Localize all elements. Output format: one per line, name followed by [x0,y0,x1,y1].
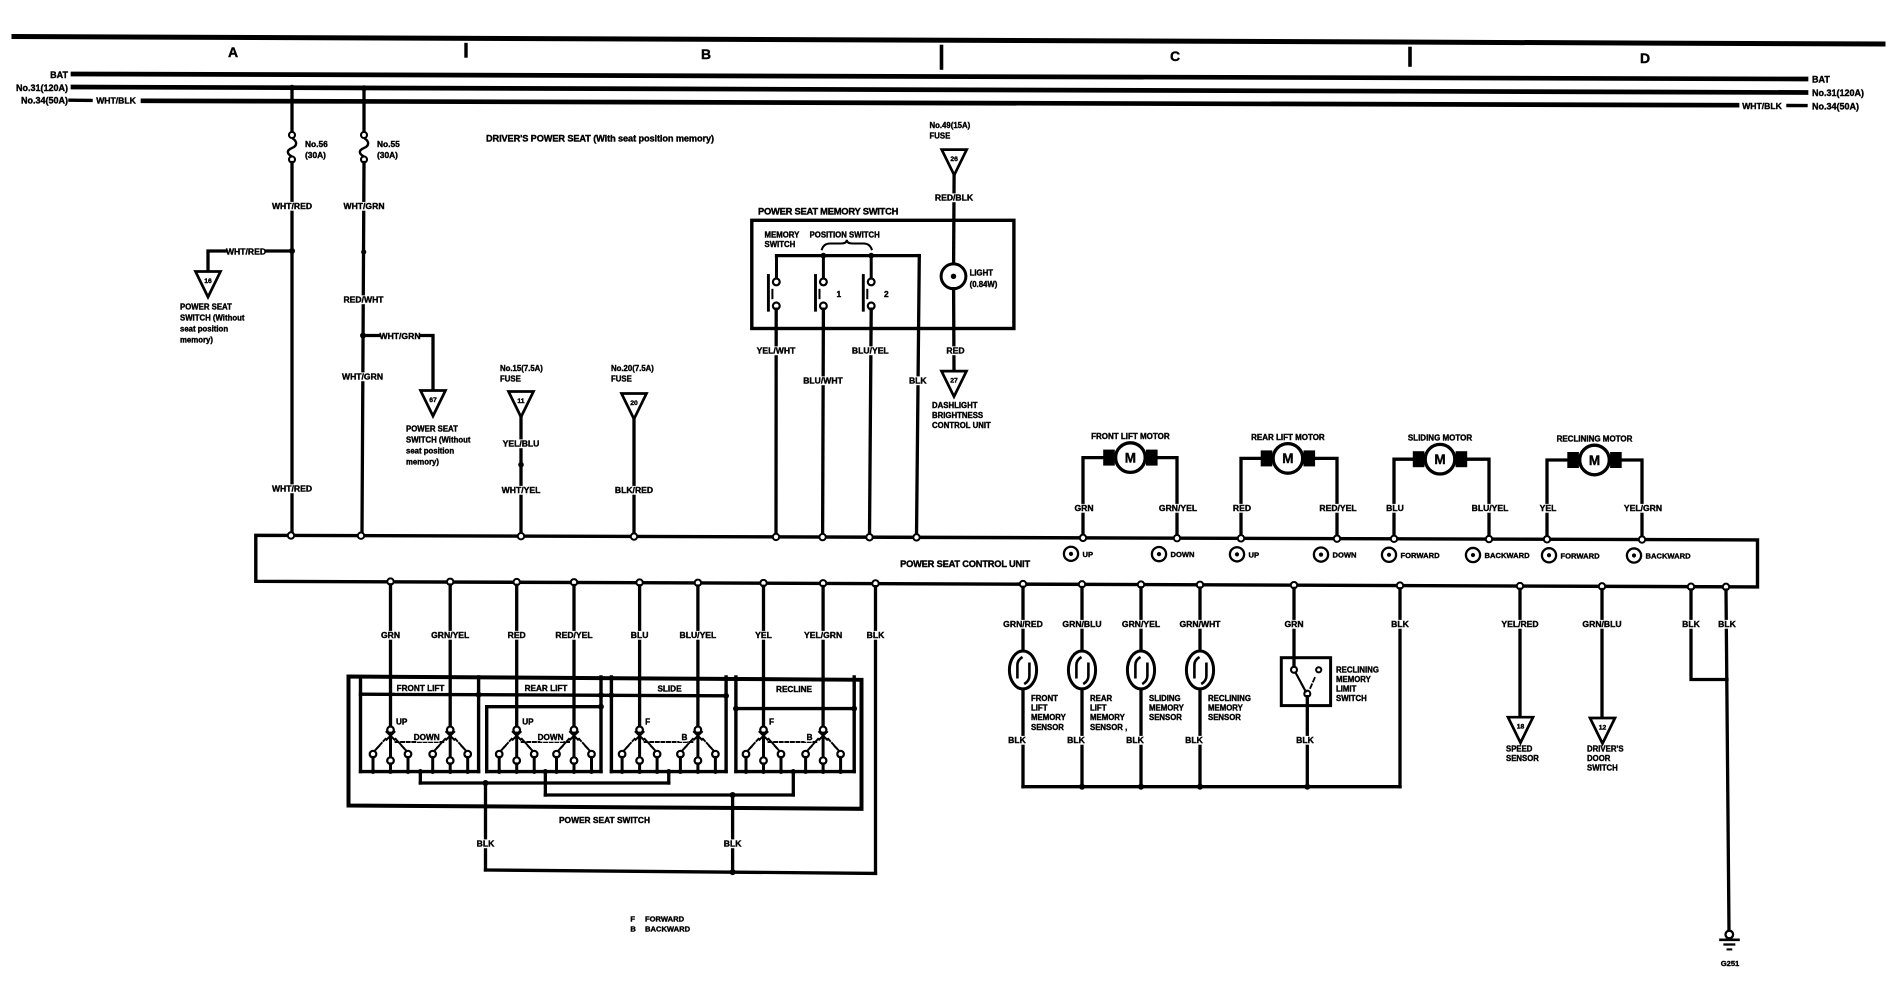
connector triangle 20 [622,394,647,420]
label BLU [1386,503,1405,513]
zone label D [1640,50,1650,66]
wire BLK control unit to sensor ground bus [1398,589,1401,787]
svg-text:FORWARD: FORWARD [645,915,685,924]
label BLK memory switch [908,376,927,386]
svg-text:YEL: YEL [755,630,772,640]
memory sensor REAR [1068,651,1095,689]
wire GRN control unit to seat switch pole [389,585,392,727]
svg-text:No.31(120A): No.31(120A) [1812,88,1864,98]
motor M3 sliding [1413,444,1467,474]
svg-text:DOWN: DOWN [414,733,440,742]
svg-text:POWER SEAT CONTROL UNIT: POWER SEAT CONTROL UNIT [900,559,1030,569]
connector triangle 16 [196,272,221,298]
svg-text:RED/BLK: RED/BLK [935,193,974,203]
label WHT/RED lower [272,484,312,494]
svg-text:(0.84W): (0.84W) [970,280,998,289]
wire link line B [545,793,793,796]
direction symbol UP at x=1071 [1064,547,1093,561]
wire BLK SLIDING sensor to ground bus [1139,689,1142,787]
svg-text:BLU/YEL: BLU/YEL [1472,503,1509,513]
label GRN/WHT [1179,619,1221,629]
mechanical link UP-DOWN [396,741,446,743]
wire bus to position switch 1 [822,257,825,278]
label DOWN [538,733,564,742]
svg-text:LIFT: LIFT [1090,704,1107,713]
wire RED/YEL M2 rear lift right lead [1315,458,1337,535]
node bus dot switch 3 [868,253,874,259]
svg-text:WHT/YEL: WHT/YEL [502,485,541,495]
wire BLK limit switch to ground bus [1304,697,1310,790]
label B [805,733,813,742]
svg-text:BLK: BLK [867,630,885,640]
label GRN [1074,503,1093,513]
svg-text:SLIDE: SLIDE [657,685,682,694]
svg-text:GRN: GRN [1074,503,1093,513]
svg-text:YEL: YEL [1540,503,1557,513]
label No.55 (30A) [377,139,400,160]
label No.34(50A) left [21,96,68,106]
label BLK sensor SLIDING [1126,735,1145,745]
slide switch frame [609,677,729,772]
wire BLU/YEL position switch 2 to control unit [870,309,872,536]
wire BLU/WHT position switch 1 to control unit [821,309,825,536]
svg-text:FRONT LIFT MOTOR: FRONT LIFT MOTOR [1091,432,1170,441]
switch pole at x=823.1 [802,727,844,774]
direction symbol UP at x=1237 [1230,547,1259,561]
wire BLU/YEL M3 sliding right lead [1467,459,1489,536]
svg-text:SWITCH (Without: SWITCH (Without [180,314,245,323]
label GRN/YEL [1122,619,1160,629]
reclining memory limit switch box [1281,658,1330,706]
label No.31(120A) right [1812,88,1864,98]
wire BLK FRONT sensor to ground bus [1021,689,1024,787]
node junction WHT/RED branch [289,248,295,254]
label BLU/YEL [851,346,889,356]
label BLK switch 1 [476,839,495,849]
ground G251 symbol [1721,931,1739,950]
switch pole at x=390.5 [370,727,412,774]
svg-text:LIMIT: LIMIT [1336,685,1357,694]
wire GRN/BLU control unit to door switch [1600,590,1603,718]
label POWER SEAT CONTROL UNIT [900,559,1030,569]
svg-text:BACKWARD: BACKWARD [1646,552,1692,561]
svg-text:GRN/YEL: GRN/YEL [431,630,469,640]
svg-text:M: M [1434,452,1445,467]
node splice on wire 2 [361,249,366,254]
wire BLU M3 sliding left lead [1394,459,1413,535]
svg-text:UP: UP [522,718,534,727]
label POSITION SWITCH [810,231,881,240]
position switch 2 contact set [863,276,874,311]
label DRIVER'S DOOR SWITCH [1587,745,1624,773]
label REAR LIFT [523,684,569,693]
brace over position switches [822,240,872,250]
svg-text:WHT/GRN: WHT/GRN [343,201,384,211]
label WHT/GRN lower [342,372,383,382]
svg-text:BLK: BLK [1391,619,1409,629]
label MEMORY SWITCH [765,231,801,250]
svg-text:No.56: No.56 [305,139,328,149]
wire sensor ground bus [1023,784,1400,790]
svg-text:YEL/GRN: YEL/GRN [1624,503,1662,513]
svg-text:M: M [1282,451,1293,466]
svg-text:BACKWARD: BACKWARD [1485,551,1531,560]
direction symbol DOWN at x=1321 [1314,547,1357,561]
svg-text:MEMORY: MEMORY [1336,675,1372,684]
svg-text:DASHLIGHT: DASHLIGHT [932,401,978,410]
memory switch contact set [768,276,779,311]
wire front lift common drop [418,769,423,783]
wire WHT/RED branch to connector 16 [208,251,292,272]
svg-text:DRIVER'S: DRIVER'S [1587,745,1624,754]
svg-text:SLIDING: SLIDING [1149,694,1181,703]
label RED [946,346,965,356]
label WHT/GRN upper [343,201,384,211]
power seat switch outer box [349,677,862,809]
label RED/YEL [1319,503,1357,513]
svg-text:B: B [630,925,636,934]
label SLIDING MEMORY SENSOR [1149,694,1185,722]
connector triangle 26 [942,150,967,176]
wire WHT/GRN / RED/WHT fuse No.55 to control unit [362,163,364,534]
connector triangle 18 speed sensor [1508,717,1533,743]
svg-text:WHT/BLK: WHT/BLK [96,96,136,106]
node junction WHT/GRN branch [360,333,366,339]
svg-text:BLU/WHT: BLU/WHT [803,376,843,386]
label YEL/BLU [502,439,540,449]
label B [679,733,687,742]
label BLK sensor RECLINING [1185,735,1204,745]
bus No.34(50A) WHT/BLK wire [70,96,1806,111]
svg-text:UP: UP [396,718,408,727]
svg-text:seat position: seat position [180,325,228,334]
control unit bottom terminals [387,578,1729,590]
label G251 [1721,959,1740,968]
wire YEL/GRN M4 reclining right lead [1622,460,1642,536]
node splice YEL/BLU to WHT/YEL [518,462,524,468]
node tap on No.31 bus at x=292 [289,85,295,91]
svg-text:RECLINING: RECLINING [1208,694,1251,703]
svg-text:CONTROL UNIT: CONTROL UNIT [932,421,991,430]
svg-text:C: C [1170,48,1180,64]
svg-text:B: B [807,733,813,742]
power seat memory switch box [752,220,1014,328]
label POWER SEAT SWITCH [559,815,650,825]
svg-text:BLK: BLK [909,376,927,386]
wire bus to position switch 2 [870,257,873,278]
svg-text:26: 26 [950,156,958,163]
svg-text:SWITCH: SWITCH [1587,764,1618,773]
svg-text:RECLINING MOTOR: RECLINING MOTOR [1557,434,1633,443]
mechanical link F-B [769,741,819,743]
label No.31(120A) left [16,83,68,93]
svg-text:YEL/WHT: YEL/WHT [757,346,796,356]
svg-text:BACKWARD: BACKWARD [645,925,691,934]
wire WHT/RED fuse No.56 to control unit [290,163,293,533]
svg-text:SLIDING MOTOR: SLIDING MOTOR [1408,434,1473,443]
svg-text:M: M [1589,453,1600,468]
svg-text:BLK: BLK [1718,619,1736,629]
svg-text:MEMORY: MEMORY [765,231,801,240]
light bulb symbol (0.84W) [941,264,966,289]
svg-text:DOWN: DOWN [1333,551,1357,560]
svg-text:POWER SEAT: POWER SEAT [180,303,232,312]
svg-text:SWITCH (Without: SWITCH (Without [406,436,471,445]
mechanical link UP-DOWN [522,741,569,743]
svg-text:GRN/RED: GRN/RED [1003,619,1043,629]
label RECLINING MOTOR [1557,434,1633,443]
label BLK ground wire [1718,619,1737,629]
label GRN/YEL [431,630,469,640]
label BAT right [1812,75,1830,85]
wire BLK REAR sensor to ground bus [1080,689,1083,787]
power seat control unit box [256,535,1758,587]
wire YEL/BLU-WHT/YEL connector 11 to control unit [519,417,522,533]
svg-text:WHT/RED: WHT/RED [272,484,312,494]
label SPEED SENSOR [1506,745,1539,764]
label YEL/RED [1501,619,1539,629]
bus BAT wire [73,74,1806,79]
svg-text:SENSOR: SENSOR [1506,754,1539,763]
rear lift switch frame [487,677,604,772]
wire GRN/BLU control unit to memory sensor [1080,588,1083,652]
svg-text:DOWN: DOWN [1171,550,1195,559]
svg-text:memory): memory) [406,458,439,467]
svg-text:SENSOR: SENSOR [1208,713,1241,722]
connector triangle 67 [421,391,446,417]
wire RED M2 rear lift left lead [1241,458,1261,535]
wire seat switch feed bus [361,694,727,696]
svg-text:GRN/BLU: GRN/BLU [1062,619,1101,629]
wire GRN/YEL control unit to memory sensor [1139,588,1142,652]
wire link line A [420,781,668,784]
connector triangle 27 [942,371,967,397]
svg-text:12: 12 [1599,725,1607,732]
wire GRN/WHT control unit to memory sensor [1198,588,1201,652]
label GRN [381,630,400,640]
svg-text:(30A): (30A) [305,150,326,160]
svg-text:POWER SEAT MEMORY SWITCH: POWER SEAT MEMORY SWITCH [758,206,899,217]
label BLU/YEL [679,630,717,640]
svg-text:BRIGHTNESS: BRIGHTNESS [932,411,983,420]
rule tick x=466 [464,45,467,57]
label YEL/WHT [757,346,796,356]
svg-text:POSITION SWITCH: POSITION SWITCH [810,231,881,240]
label YEL [1539,503,1558,513]
label GRN/BLU right [1582,619,1621,629]
svg-text:F: F [645,718,650,727]
label REAR LIFT MEMORY SENSOR , [1090,694,1127,732]
wire GRN/YEL control unit to seat switch pole [449,585,452,727]
label RED/YEL [555,630,593,640]
label POWER SEAT SWITCH (Without seat position memory) #2 [406,425,471,467]
connector triangle 11 [509,392,534,418]
svg-text:27: 27 [950,378,958,385]
wire recline common riser [791,769,796,795]
svg-text:POWER SEAT SWITCH: POWER SEAT SWITCH [559,815,650,825]
svg-text:WHT/RED: WHT/RED [272,201,312,211]
switch pole at x=516.7 [496,727,538,774]
svg-text:DRIVER'S POWER SEAT (With seat: DRIVER'S POWER SEAT (With seat position … [486,134,714,144]
label 1 [837,289,842,299]
svg-text:GRN: GRN [381,630,400,640]
label BLK control unit [866,630,885,640]
wire No.31 bus to fuse No.55 [362,88,365,133]
wire BLU control unit to seat switch pole [638,586,641,727]
label RECLINING MEMORY SENSOR [1208,694,1251,722]
svg-text:BLK/RED: BLK/RED [615,485,653,495]
svg-text:RED/YEL: RED/YEL [555,630,592,640]
svg-text:RED: RED [508,630,526,640]
svg-text:seat position: seat position [406,447,454,456]
svg-text:M: M [1125,450,1136,465]
svg-text:20: 20 [630,400,638,407]
wire BLK control unit jumper [1691,590,1727,680]
wire YEL control unit to seat switch pole [762,586,765,726]
svg-text:FORWARD: FORWARD [1561,551,1601,560]
svg-text:REAR LIFT: REAR LIFT [525,684,568,693]
svg-text:WHT/BLK: WHT/BLK [1742,101,1782,111]
wire BLK control unit to switch common rail [874,587,877,874]
svg-text:LIFT: LIFT [1031,704,1048,713]
svg-text:16: 16 [204,278,212,285]
svg-text:A: A [228,44,238,60]
rule tick x=1410 [1408,49,1412,66]
label WHT/RED branch [226,247,266,257]
svg-text:WHT/RED: WHT/RED [226,247,266,257]
svg-text:SPEED: SPEED [1506,745,1533,754]
svg-text:B: B [701,46,711,62]
direction symbol BACKWARD at x=1473 [1466,548,1530,562]
svg-text:FORWARD: FORWARD [1401,551,1441,560]
label REAR LIFT MOTOR [1251,433,1325,442]
label BLK switch 2 [723,839,742,849]
fuse No.56 (30A) symbol [288,132,296,163]
label BLK limit switch [1296,735,1315,745]
label WHT/RED upper [272,201,312,211]
wire YEL/GRN control unit to seat switch pole [821,586,824,726]
wire BLK control unit to ground G251 [1726,590,1729,931]
svg-text:D: D [1640,50,1650,66]
svg-text:UP: UP [1249,550,1260,559]
position switch 1 contact set [816,276,827,311]
label GRN/BLU [1062,619,1101,629]
svg-text:RED: RED [946,346,964,356]
label BLK sensor FRONT [1008,735,1027,745]
svg-text:BLK: BLK [724,839,742,849]
wire YEL/RED control unit to speed sensor [1518,589,1521,717]
direction symbol FORWARD at x=1549 [1542,548,1600,562]
motor M4 reclining [1567,445,1621,475]
label F [644,718,652,727]
svg-text:MEMORY: MEMORY [1031,713,1067,722]
connector triangle 12 door switch [1590,718,1615,744]
label No.49(15A) FUSE [930,121,971,141]
label RECLINING MEMORY LIMIT SWITCH [1336,666,1379,704]
node bus dot switch 2 [821,253,827,259]
svg-text:BLU: BLU [631,630,649,640]
svg-text:SENSOR ,: SENSOR , [1090,723,1127,732]
label POWER SEAT SWITCH (Without seat position memory) #1 [180,303,245,345]
switch pole at x=639.6 [619,727,661,774]
label FRONT LIFT MEMORY SENSOR [1031,694,1067,732]
svg-text:GRN/BLU: GRN/BLU [1582,619,1621,629]
svg-text:MEMORY: MEMORY [1149,704,1185,713]
svg-text:BLK: BLK [1185,735,1203,745]
wire slide common riser [666,769,671,783]
svg-text:YEL/GRN: YEL/GRN [804,630,842,640]
motor M1 front lift [1103,443,1157,473]
wire No.31 bus to fuse No.56 [290,88,293,134]
direction symbol BACKWARD at x=1634 [1627,548,1691,562]
svg-text:SWITCH: SWITCH [1336,694,1367,703]
label RECLINE [775,685,814,694]
label POWER SEAT MEMORY SWITCH [758,206,899,217]
svg-text:RED/YEL: RED/YEL [1319,503,1356,513]
svg-text:BLK: BLK [1296,735,1314,745]
svg-text:RECLINING: RECLINING [1336,666,1379,675]
label No.15(7.5A) FUSE [500,364,543,384]
svg-text:SENSOR: SENSOR [1149,713,1182,722]
svg-text:WHT/GRN: WHT/GRN [379,331,420,341]
label F [768,718,776,727]
top rule line [14,37,1883,45]
zone label C [1170,48,1180,64]
svg-text:BLK: BLK [1008,735,1026,745]
node tap on No.31 bus at x=364 [361,85,367,91]
svg-text:UP: UP [1083,550,1094,559]
svg-text:No.55: No.55 [377,139,400,149]
wire GRN M1 front lift left lead [1083,458,1103,535]
wire YEL/WHT memory switch to control unit [774,309,778,536]
svg-text:RED: RED [1233,503,1251,513]
memory sensor RECLINING [1186,651,1213,689]
svg-text:BLK: BLK [1682,619,1700,629]
svg-text:SWITCH: SWITCH [765,240,796,249]
svg-text:(30A): (30A) [377,150,398,160]
label BLU/YEL [1471,503,1509,513]
direction symbol FORWARD at x=1389 [1382,548,1440,562]
node BLK1 junction [483,780,489,786]
svg-text:No.20(7.5A): No.20(7.5A) [611,364,654,373]
svg-text:BAT: BAT [1812,75,1830,85]
label DOWN [414,733,440,742]
svg-text:BAT: BAT [50,70,68,80]
memory sensor FRONT [1009,651,1036,689]
label No.34(50A) right [1812,101,1859,111]
title DRIVER'S POWER SEAT (With seat position memory) [486,134,714,144]
label FRONT LIFT MOTOR [1091,432,1170,441]
label RED/WHT [343,295,384,305]
svg-text:SENSOR: SENSOR [1031,723,1064,732]
label No.56 (30A) [305,139,328,160]
bus No.31(120A) wire [73,87,1806,93]
label BLK/RED [615,485,653,495]
label RED [507,630,526,640]
svg-text:2: 2 [884,289,889,299]
svg-text:GRN: GRN [1284,619,1303,629]
svg-text:RECLINE: RECLINE [776,685,812,694]
label GRN/YEL [1159,503,1197,513]
svg-text:No.15(7.5A): No.15(7.5A) [500,364,543,373]
wire YEL M4 reclining left lead [1547,460,1567,536]
wire BLU/YEL control unit to seat switch pole [696,586,699,727]
wire RED control unit to seat switch pole [515,585,518,726]
wire BLK switch ground 2 [731,795,734,872]
recline switch frame [733,677,857,772]
label YEL [754,630,773,640]
svg-text:FUSE: FUSE [611,375,632,384]
